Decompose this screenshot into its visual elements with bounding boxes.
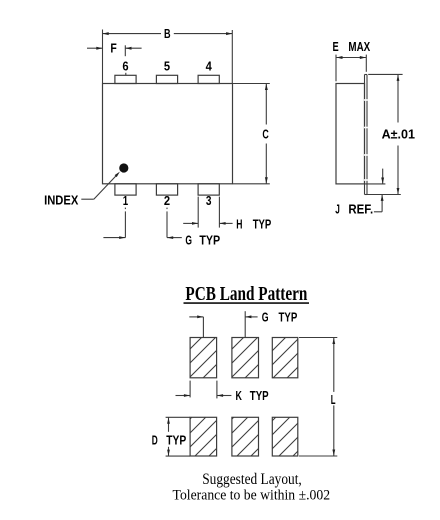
svg-text:Suggested Layout,: Suggested Layout, <box>202 471 302 488</box>
svg-text:TYP: TYP <box>250 389 269 403</box>
svg-text:L: L <box>331 393 336 407</box>
svg-text:E: E <box>333 40 339 54</box>
svg-text:TYP: TYP <box>279 311 298 325</box>
svg-text:REF.: REF. <box>348 202 373 216</box>
svg-text:TYP: TYP <box>253 218 272 232</box>
svg-text:F: F <box>110 41 117 55</box>
svg-text:K: K <box>236 389 242 403</box>
svg-text:D: D <box>152 433 158 447</box>
svg-text:H: H <box>236 218 242 232</box>
svg-text:TYP: TYP <box>166 433 186 447</box>
svg-text:3: 3 <box>206 194 212 208</box>
svg-text:J: J <box>335 202 340 216</box>
svg-text:6: 6 <box>122 60 128 74</box>
svg-text:Tolerance to be within ±.002: Tolerance to be within ±.002 <box>173 488 331 504</box>
svg-text:C: C <box>262 128 268 142</box>
svg-text:A±.01: A±.01 <box>382 127 415 141</box>
svg-text:TYP: TYP <box>199 234 220 248</box>
svg-text:1: 1 <box>123 194 128 208</box>
svg-text:G: G <box>185 234 192 248</box>
svg-text:5: 5 <box>164 60 170 74</box>
svg-text:2: 2 <box>164 194 170 208</box>
svg-text:MAX: MAX <box>348 40 370 54</box>
svg-text:G: G <box>262 311 269 325</box>
svg-text:B: B <box>164 27 171 41</box>
svg-text:INDEX: INDEX <box>44 193 79 207</box>
svg-text:4: 4 <box>206 60 212 74</box>
svg-text:PCB Land Pattern: PCB Land Pattern <box>185 283 307 305</box>
